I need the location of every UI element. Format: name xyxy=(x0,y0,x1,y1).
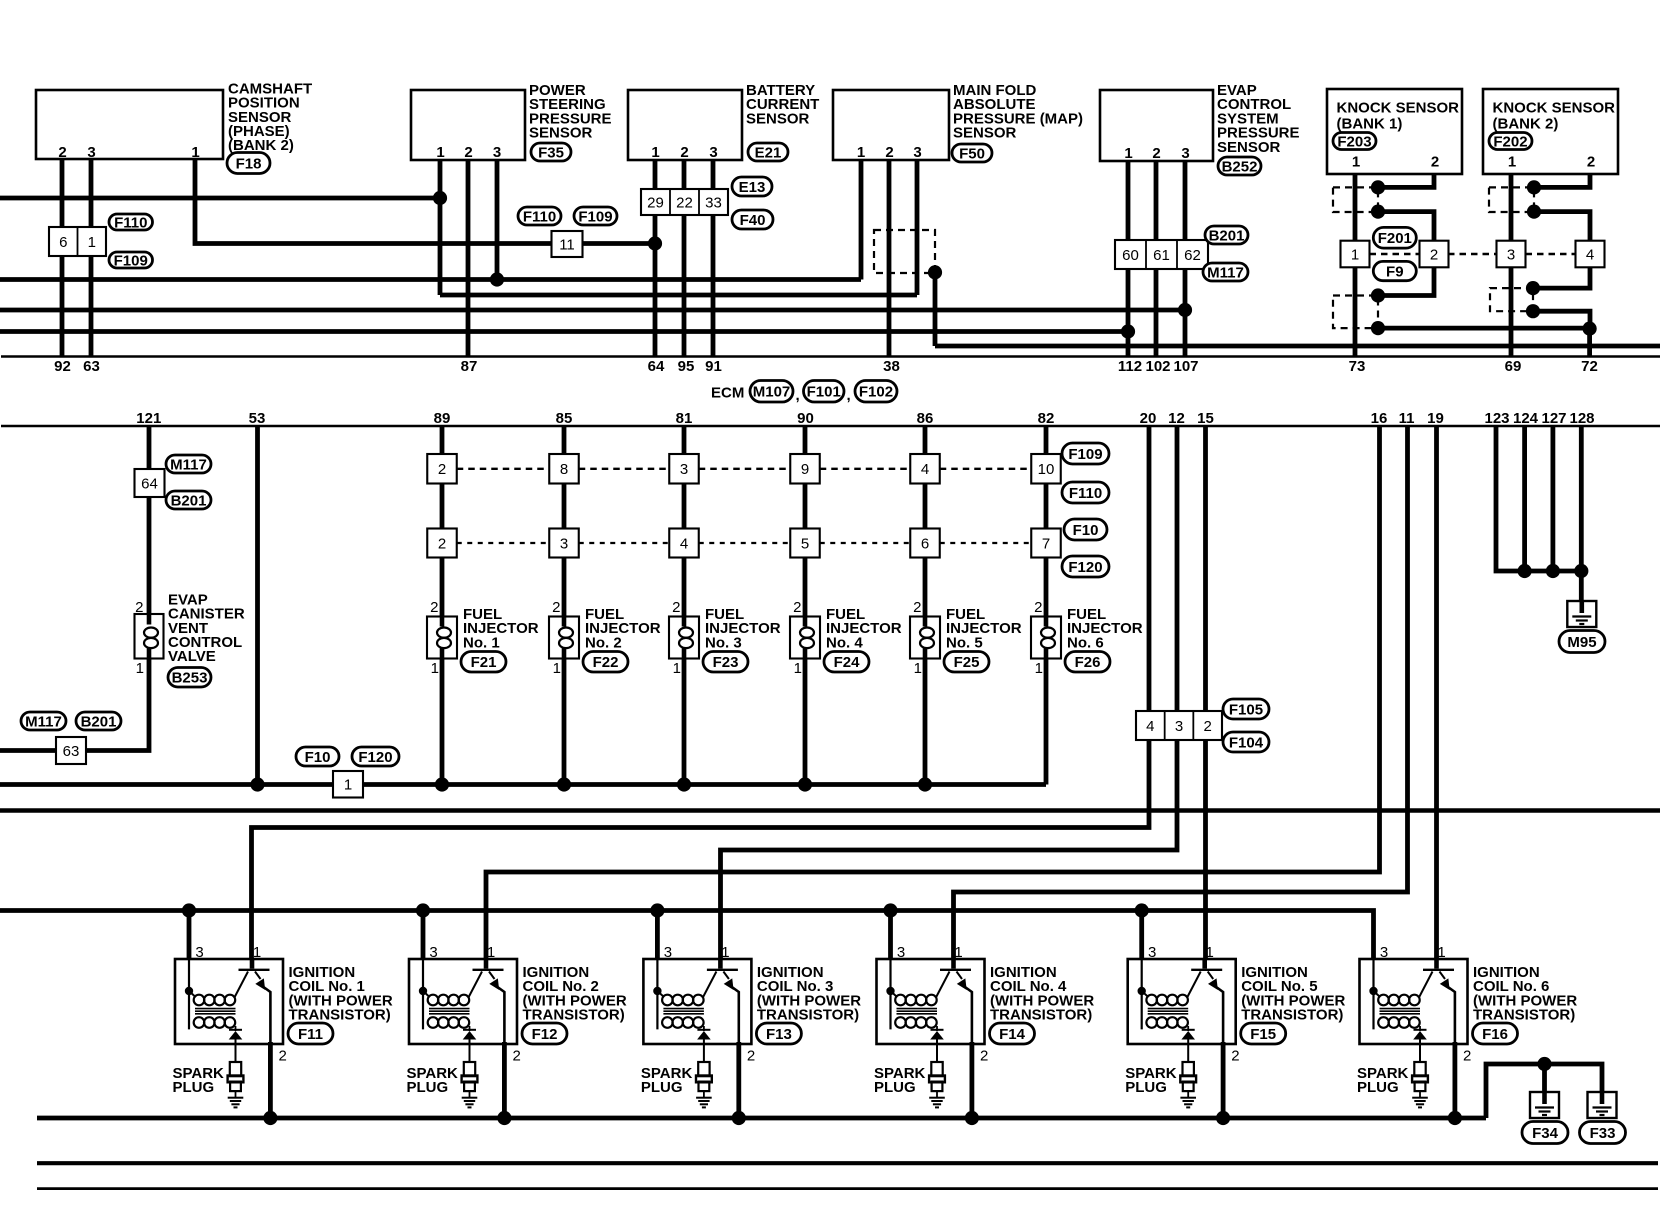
connector cell 4 xyxy=(1576,241,1605,268)
svg-text:,: , xyxy=(847,387,851,404)
spark plug No. 1 xyxy=(230,1062,241,1076)
shield (dashed) around MAP pins 2-3 xyxy=(874,230,935,273)
wire: connector 2 down to lower shield xyxy=(1378,267,1434,295)
svg-text:73: 73 xyxy=(1349,358,1366,375)
fuel injector No. 6 coil F26 xyxy=(1031,617,1061,659)
wire: ECM 124 to ground node xyxy=(1522,426,1527,571)
wire: EVAP sensor pin 3 to ECM 107 xyxy=(1183,161,1188,357)
power steering pressure sensor box F35 xyxy=(411,90,525,160)
svg-text:F202: F202 xyxy=(1493,133,1527,150)
shield (dashed) around knock (BANK 1) pin 1 wire (upper) xyxy=(1333,187,1378,212)
wire: ECM 82 to fuel injector No. 6 xyxy=(1044,426,1049,454)
connector label F12 xyxy=(522,1023,567,1044)
svg-text:81: 81 xyxy=(676,410,693,427)
svg-text:B201: B201 xyxy=(1209,227,1245,244)
ECM bottom boundary line xyxy=(1,425,1660,428)
wire: MAP shield drain down xyxy=(933,272,938,346)
shield (dashed) around knock (BANK 1) pin 1 wire (lower) xyxy=(1333,296,1378,329)
svg-text:F203: F203 xyxy=(1337,133,1371,150)
svg-text:F109: F109 xyxy=(114,252,148,269)
wire: off-page bus to MAP sensor pin 1 xyxy=(0,277,861,282)
svg-text:2: 2 xyxy=(680,144,688,161)
svg-text:F110: F110 xyxy=(523,208,556,225)
camshaft position sensor (phase)(bank 2) box F18 xyxy=(36,90,223,159)
EVAP canister vent control valve coil B253 xyxy=(135,614,164,659)
wire: ECM 12 to ignition coil No.3 pin 1 xyxy=(721,426,1178,959)
svg-text:SENSOR: SENSOR xyxy=(746,110,810,127)
connector label F120 (injector row) xyxy=(1062,556,1109,577)
connector label F16 xyxy=(1473,1023,1518,1044)
junction: coil No. 6 pin 2 on ground bus xyxy=(1448,1111,1462,1125)
svg-text:128: 128 xyxy=(1569,410,1594,427)
battery current sensor box E21 xyxy=(628,90,742,160)
shield junction dots (upper) xyxy=(1371,180,1385,194)
svg-text:F109: F109 xyxy=(1068,446,1102,463)
connector label B253 xyxy=(168,668,211,688)
svg-text:1: 1 xyxy=(721,944,729,961)
connector label F104 xyxy=(1223,732,1269,752)
fuel injector No. 2 coil F22 xyxy=(549,617,579,659)
spark/coil ground bus xyxy=(37,1116,1486,1121)
svg-text:72: 72 xyxy=(1581,358,1598,375)
svg-text:2: 2 xyxy=(1203,718,1211,735)
svg-text:2: 2 xyxy=(1152,145,1160,162)
ignition coil No. 6 box F16 xyxy=(1360,959,1468,1044)
connector label E13 xyxy=(732,177,772,196)
wire: connector to injector No. 4 coil xyxy=(803,558,808,617)
coil No. 1 primary/secondary windings xyxy=(188,959,190,1029)
svg-text:F40: F40 xyxy=(740,212,766,229)
wire: connector to injector No. 3 coil xyxy=(682,558,687,617)
svg-text:No. 1: No. 1 xyxy=(463,634,500,651)
svg-text:69: 69 xyxy=(1505,358,1522,375)
fuel injector No. 1 coil F21 xyxy=(427,617,457,659)
svg-text:2: 2 xyxy=(1463,1048,1471,1065)
svg-text:2: 2 xyxy=(1587,154,1595,171)
wire: injector No. 2 pin 1 to supply bus xyxy=(562,659,567,785)
junction: pin 128 on ground bus xyxy=(1574,564,1588,578)
svg-text:PLUG: PLUG xyxy=(1357,1079,1399,1096)
svg-text:63: 63 xyxy=(83,358,100,375)
wire: valve pin 1 via connector 63 to off-page left xyxy=(0,659,149,751)
wire: MAP pin 1 down to bus xyxy=(859,160,864,280)
wire: injector No. 1 pin 1 to supply bus xyxy=(440,659,445,785)
wire: power steering pin 2 to ECM 87 xyxy=(466,160,471,357)
svg-text:VALVE: VALVE xyxy=(168,648,216,665)
svg-text:127: 127 xyxy=(1541,410,1566,427)
junction: pin 127 on ground bus xyxy=(1546,564,1560,578)
coil No. 4 secondary diode xyxy=(936,1026,938,1031)
connector label F13 xyxy=(756,1023,801,1044)
svg-text:3: 3 xyxy=(913,144,921,161)
svg-text:15: 15 xyxy=(1197,410,1214,427)
svg-text:TRANSISTOR): TRANSISTOR) xyxy=(990,1007,1092,1024)
connector F105/F104 cells 4|3|2 xyxy=(1136,711,1222,740)
svg-text:1: 1 xyxy=(651,144,659,161)
svg-text:TRANSISTOR): TRANSISTOR) xyxy=(1241,1007,1343,1024)
junction: injector on supply bus xyxy=(798,777,812,791)
wire: supply bus to coil pin 3 xyxy=(1139,911,1144,960)
shield (dashed) around knock (BANK 2) pin 1 wire (lower) xyxy=(1490,288,1533,311)
coil No. 6 secondary diode xyxy=(1419,1026,1421,1031)
dashed link connector 2-3 xyxy=(1448,253,1498,255)
wire: power steering pin 1 to MAP sensor pin 3 xyxy=(440,293,917,298)
connector cell 3 (F109/F110 row) xyxy=(669,454,699,484)
svg-text:3: 3 xyxy=(680,461,688,478)
svg-text:60: 60 xyxy=(1122,247,1139,264)
svg-text:3: 3 xyxy=(1380,944,1388,961)
svg-text:107: 107 xyxy=(1173,358,1198,375)
svg-text:M95: M95 xyxy=(1567,634,1596,651)
svg-text:F105: F105 xyxy=(1229,701,1263,718)
svg-text:2: 2 xyxy=(1431,154,1439,171)
wire: power steering pin 3 to off-page bus xyxy=(495,160,500,280)
connector label F40 xyxy=(732,210,773,229)
junction: coil No. 4 pin 2 on ground bus xyxy=(965,1111,979,1125)
svg-text:91: 91 xyxy=(705,358,722,375)
wire: between connector rows xyxy=(562,484,567,529)
svg-text:F10: F10 xyxy=(1073,522,1099,539)
connector label F11 xyxy=(288,1023,333,1044)
spark plug No. 3 xyxy=(698,1062,709,1076)
wire: battery pin 2 to ECM 95 xyxy=(682,160,687,357)
svg-text:F21: F21 xyxy=(471,654,497,671)
svg-text:F33: F33 xyxy=(1590,1125,1616,1142)
connector F110/F109 cells 6|1 xyxy=(49,227,106,256)
ground label F34 xyxy=(1522,1122,1568,1144)
connector label F203 xyxy=(1333,133,1376,150)
svg-text:,: , xyxy=(796,387,800,404)
svg-text:7: 7 xyxy=(1042,535,1050,552)
svg-text:6: 6 xyxy=(921,535,929,552)
connector label F25 xyxy=(944,652,989,673)
dashed connector link xyxy=(1526,253,1576,255)
knock sensor (BANK 2) box F202 xyxy=(1483,89,1618,174)
svg-text:SENSOR: SENSOR xyxy=(529,125,593,142)
svg-text:2: 2 xyxy=(1034,599,1042,616)
wire: camshaft pin 2 to ECM 92 xyxy=(60,159,65,357)
svg-text:SENSOR: SENSOR xyxy=(1217,139,1281,156)
wire: EVAP sensor pin 2 to ECM 102 xyxy=(1154,161,1159,357)
ignition coil No. 4 box F14 xyxy=(877,959,985,1044)
svg-text:64: 64 xyxy=(141,475,158,492)
svg-text:F16: F16 xyxy=(1482,1026,1508,1043)
svg-text:B252: B252 xyxy=(1222,158,1258,175)
svg-text:11: 11 xyxy=(1399,410,1415,427)
connector label F23 xyxy=(703,652,748,673)
svg-text:3: 3 xyxy=(1507,246,1515,263)
coil No. 1 secondary diode xyxy=(235,1026,237,1031)
connector label F10 (bus) xyxy=(296,747,339,766)
svg-text:F201: F201 xyxy=(1378,230,1412,247)
wire: injector No. 3 pin 1 to supply bus xyxy=(682,659,687,785)
wire: ECM 90 to fuel injector No. 4 xyxy=(803,426,808,454)
svg-text:3: 3 xyxy=(429,944,437,961)
wire: connector to injector No. 5 coil xyxy=(923,558,928,617)
connector B201/M117 cells 60|61|62 xyxy=(1115,240,1208,269)
wire: between connector rows xyxy=(440,484,445,529)
junction: coil pin 3 on supply bus xyxy=(182,903,196,917)
junction: injector on supply bus xyxy=(557,777,571,791)
svg-text:85: 85 xyxy=(556,410,573,427)
coil No. 2 primary/secondary windings xyxy=(422,959,424,1029)
connector cell 7 (F10/F120 row) xyxy=(1031,529,1061,558)
connector label F9 xyxy=(1373,261,1416,280)
svg-text:F18: F18 xyxy=(236,155,262,172)
wire: knock sensor (BANK 2) pin 1 to ECM 69 xyxy=(1509,174,1514,357)
connector label F10 (injector row) xyxy=(1064,519,1107,540)
junction: power steering pin 1 xyxy=(433,191,447,205)
junction: battery pin1 wire and camshaft pin1 bus xyxy=(648,236,662,250)
junction: MAP shield drain xyxy=(928,265,942,279)
svg-text:3: 3 xyxy=(560,535,568,552)
svg-text:M107: M107 xyxy=(753,384,791,401)
wire: between connector rows xyxy=(1044,484,1049,529)
svg-text:4: 4 xyxy=(680,535,688,552)
dashed connector link row2 xyxy=(457,542,550,544)
svg-text:82: 82 xyxy=(1038,410,1055,427)
svg-text:2: 2 xyxy=(1430,246,1438,263)
svg-text:92: 92 xyxy=(54,358,71,375)
svg-text:No. 3: No. 3 xyxy=(705,634,742,651)
svg-text:2: 2 xyxy=(1231,1048,1239,1065)
svg-text:3: 3 xyxy=(897,944,905,961)
wire: injector No. 6 pin 1 to supply bus xyxy=(1044,659,1049,785)
svg-text:F26: F26 xyxy=(1075,654,1101,671)
wire: shield drain node to ECM 72 xyxy=(1587,329,1592,357)
connector label F109 xyxy=(109,252,153,268)
shield (dashed) around knock (BANK 2) pin 1 wire (upper) xyxy=(1489,187,1534,212)
svg-text:No. 5: No. 5 xyxy=(946,634,983,651)
connector F10/F120 cell 1 xyxy=(333,771,363,798)
dashed connector link row2 xyxy=(699,542,791,544)
spark plug No. 5 xyxy=(1183,1062,1194,1076)
svg-text:89: 89 xyxy=(434,410,451,427)
svg-text:F110: F110 xyxy=(1069,485,1102,502)
svg-text:86: 86 xyxy=(917,410,934,427)
connector label B201 (valve bottom) xyxy=(76,712,121,730)
wire: ground bus to body grounds F34/F33 xyxy=(1486,1064,1602,1118)
manifold absolute pressure sensor box F50 xyxy=(833,90,949,160)
svg-text:E13: E13 xyxy=(739,179,766,196)
svg-text:95: 95 xyxy=(678,358,695,375)
svg-text:F13: F13 xyxy=(766,1026,792,1043)
wire: off-page bus to power steering pin 1 xyxy=(0,196,440,201)
svg-text:1: 1 xyxy=(431,660,439,677)
svg-text:F101: F101 xyxy=(807,384,841,401)
svg-text:64: 64 xyxy=(648,358,665,375)
EVAP control system pressure sensor box B252 xyxy=(1100,90,1213,161)
connector label F21 xyxy=(461,652,506,673)
wire: between connector rows xyxy=(682,484,687,529)
connector label F35 xyxy=(531,143,571,161)
svg-text:2: 2 xyxy=(552,599,560,616)
wire: knock sensor (BANK 1) pin 2 elbow to shield node xyxy=(1378,174,1434,187)
coil No. 2 power transistor xyxy=(484,959,489,969)
coil No. 5 secondary diode xyxy=(1187,1026,1189,1031)
svg-text:53: 53 xyxy=(249,410,266,427)
connector cell 5 (F10/F120 row) xyxy=(790,529,820,558)
svg-text:1: 1 xyxy=(88,234,96,251)
svg-text:1: 1 xyxy=(1352,154,1360,171)
svg-text:PLUG: PLUG xyxy=(407,1079,449,1096)
connector label F24 xyxy=(824,652,869,673)
junction: coil No. 5 pin 2 on ground bus xyxy=(1216,1111,1230,1125)
ECM connector label M107 xyxy=(750,381,793,403)
coil No. 1 power transistor xyxy=(250,959,255,969)
connector label M117 (valve top) xyxy=(166,455,211,473)
svg-text:1: 1 xyxy=(857,144,865,161)
wire: connector to injector No. 2 coil xyxy=(562,558,567,617)
wire: connector 4 down to lower shield xyxy=(1534,267,1590,288)
svg-text:2: 2 xyxy=(913,599,921,616)
connector cell 4 (F109/F110 row) xyxy=(910,454,940,484)
svg-text:2: 2 xyxy=(885,144,893,161)
connector label M117 (valve bottom) xyxy=(21,712,66,730)
dashed connector link row2 xyxy=(579,542,670,544)
svg-text:1: 1 xyxy=(1351,246,1359,263)
svg-text:112: 112 xyxy=(1118,358,1142,375)
ground symbol F33 xyxy=(1588,1092,1617,1118)
svg-text:20: 20 xyxy=(1140,410,1157,427)
svg-text:B253: B253 xyxy=(172,670,208,687)
svg-text:TRANSISTOR): TRANSISTOR) xyxy=(289,1007,391,1024)
svg-text:87: 87 xyxy=(461,358,478,375)
wire: camshaft pin 1 via connector 11 to battery sensor pin 1 node xyxy=(195,159,655,244)
svg-text:F24: F24 xyxy=(834,654,861,671)
wire: ECM 123 to ground node xyxy=(1496,426,1581,571)
svg-text:PLUG: PLUG xyxy=(173,1079,215,1096)
svg-text:9: 9 xyxy=(801,461,809,478)
svg-text:M117: M117 xyxy=(25,713,62,730)
wire: ECM 121 to EVAP canister vent control valve xyxy=(147,426,152,614)
wire: power steering pin 1 down to MAP pin3 bus xyxy=(438,160,443,295)
svg-text:2: 2 xyxy=(672,599,680,616)
svg-text:2: 2 xyxy=(58,144,66,161)
svg-text:B201: B201 xyxy=(171,492,207,509)
svg-text:38: 38 xyxy=(883,358,900,375)
connector label B252 xyxy=(1218,157,1261,175)
svg-text:F14: F14 xyxy=(999,1026,1026,1043)
svg-text:124: 124 xyxy=(1513,410,1539,427)
svg-text:1: 1 xyxy=(794,660,802,677)
svg-text:1: 1 xyxy=(1508,154,1516,171)
svg-text:F104: F104 xyxy=(1229,734,1264,751)
dashed connector link row2 xyxy=(940,542,1032,544)
junction: coil pin 3 on supply bus xyxy=(883,903,897,917)
ground label M95 xyxy=(1559,631,1605,653)
svg-text:F25: F25 xyxy=(954,654,980,671)
svg-text:121: 121 xyxy=(136,410,161,427)
dashed connector link row1 xyxy=(940,468,1032,470)
wire: coil No. 5 pin 2 to spark ground bus xyxy=(1221,1042,1226,1118)
svg-text:3: 3 xyxy=(493,144,501,161)
junction: F34 ground tap xyxy=(1537,1057,1551,1071)
wire: ECM 85 to fuel injector No. 2 xyxy=(562,426,567,454)
svg-text:M117: M117 xyxy=(1207,264,1244,281)
svg-text:TRANSISTOR): TRANSISTOR) xyxy=(757,1007,859,1024)
connector label F109 (injector row) xyxy=(1062,443,1109,464)
connector label M117 xyxy=(1203,263,1248,281)
svg-text:1: 1 xyxy=(1206,944,1214,961)
ECM top boundary line xyxy=(1,355,1660,358)
dashed connector link row1 xyxy=(699,468,791,470)
svg-text:1: 1 xyxy=(1437,944,1445,961)
svg-text:KNOCK SENSOR: KNOCK SENSOR xyxy=(1493,100,1616,117)
svg-text:6: 6 xyxy=(59,234,67,251)
svg-text:12: 12 xyxy=(1168,410,1185,427)
wire: injector No. 4 pin 1 to supply bus xyxy=(803,659,808,785)
connector label F201 xyxy=(1373,227,1416,248)
ignition coil No. 1 box F11 xyxy=(175,959,283,1044)
junction: injector on supply bus xyxy=(435,777,449,791)
coil No. 4 primary/secondary windings xyxy=(889,959,891,1029)
svg-text:4: 4 xyxy=(1146,718,1154,735)
connector cell 2 xyxy=(1420,241,1449,268)
wire: knock sensor (BANK 2) pin 2 elbow to shield node xyxy=(1534,174,1590,187)
svg-text:2: 2 xyxy=(793,599,801,616)
junction: injector on supply bus xyxy=(918,777,932,791)
junction: shield drain node xyxy=(1583,322,1597,336)
ground symbol M95 xyxy=(1567,601,1596,627)
wire: MAP pin 3 down to power steering pin1 bus xyxy=(915,160,920,295)
wire: supply bus to coil pin 3 xyxy=(655,911,660,960)
connector label B201 (valve top) xyxy=(166,491,211,509)
junction: ECM 53 on injector bus xyxy=(250,777,264,791)
wire: shield node to connector cell 4 xyxy=(1534,212,1590,241)
coil No. 3 primary/secondary windings xyxy=(656,959,658,1029)
svg-text:1: 1 xyxy=(487,944,495,961)
wire: coil No. 6 pin 2 to spark ground bus xyxy=(1453,1042,1458,1118)
junction: injector on supply bus xyxy=(677,777,691,791)
svg-text:(BANK 2): (BANK 2) xyxy=(1493,116,1559,133)
ground label F33 xyxy=(1580,1122,1626,1144)
spark plug No. 2 xyxy=(464,1062,475,1076)
wire: supply bus to coil pin 3 xyxy=(421,911,426,960)
fuel injector No. 5 coil F25 xyxy=(910,617,940,659)
svg-text:KNOCK SENSOR: KNOCK SENSOR xyxy=(1337,100,1460,117)
svg-text:F110: F110 xyxy=(114,214,147,231)
coil No. 5 power transistor xyxy=(1202,959,1207,969)
ignition coil No. 2 box F12 xyxy=(409,959,517,1044)
wire: ECM 20 to ignition coil No.1 pin 1 xyxy=(252,426,1150,959)
svg-text:5: 5 xyxy=(801,535,809,552)
svg-text:TRANSISTOR): TRANSISTOR) xyxy=(1473,1007,1575,1024)
wire: coil No. 1 pin 2 to spark ground bus xyxy=(268,1042,273,1118)
svg-text:2: 2 xyxy=(430,599,438,616)
connector label F109 (second) xyxy=(574,207,617,225)
svg-text:F22: F22 xyxy=(593,654,619,671)
svg-text:3: 3 xyxy=(1148,944,1156,961)
junction: coil No. 3 pin 2 on ground bus xyxy=(732,1111,746,1125)
wire: ECM 16 to ignition coil No.2 pin 1 xyxy=(486,426,1380,959)
connector cell 1 xyxy=(1341,241,1370,268)
svg-text:2: 2 xyxy=(279,1048,287,1065)
svg-text:(BANK 1): (BANK 1) xyxy=(1337,116,1403,133)
svg-text:29: 29 xyxy=(647,194,664,211)
svg-text:11: 11 xyxy=(559,236,575,253)
svg-text:10: 10 xyxy=(1038,461,1055,478)
connector cell 2 (F109/F110 row) xyxy=(427,454,457,484)
ignition coil No. 3 box F13 xyxy=(643,959,751,1044)
wire: shield node to connector cell 2 xyxy=(1378,212,1434,241)
spark plug No. 6 xyxy=(1414,1062,1425,1076)
svg-text:F15: F15 xyxy=(1250,1026,1276,1043)
svg-text:F50: F50 xyxy=(959,145,985,162)
wire: ECM 15 to ignition coil No.5 pin 1 xyxy=(1203,426,1208,959)
ignition coil No. 5 box F15 xyxy=(1128,959,1236,1044)
wire: coil No. 4 pin 2 to spark ground bus xyxy=(970,1042,975,1118)
